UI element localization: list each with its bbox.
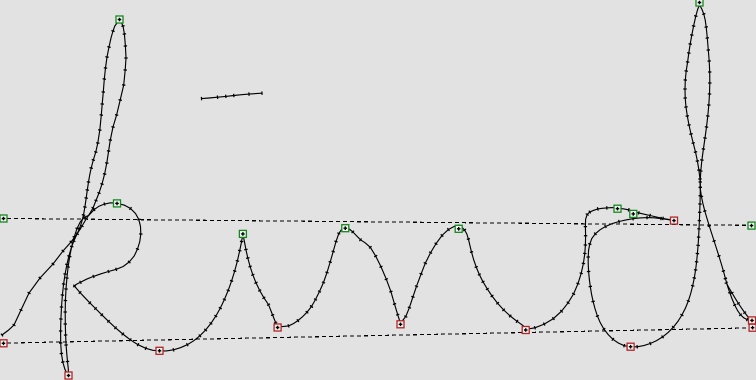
corpus guideline (top dashed): [0, 218, 756, 225]
stroke d tail return: [725, 282, 752, 321]
stroke i exit: [277, 305, 312, 329]
marker green n hump 1 top: [342, 225, 349, 232]
stroke n hump 2 descent: [458, 225, 527, 331]
marker red baseline left end: [0, 340, 7, 347]
stroke n hump 2 rise: [399, 225, 459, 325]
stroke d ascender downstroke and tail: [698, 4, 727, 279]
baseline guideline (bottom dashed): [0, 328, 756, 343]
stroke connection to d top: [525, 206, 674, 331]
stroke rise to i apex: [160, 234, 245, 353]
marker red k descender bottom: [65, 372, 72, 379]
stroke n hump 1 descent: [345, 226, 402, 324]
marker green d approach peak 2: [630, 210, 637, 217]
marker red d bowl top-right: [671, 217, 678, 224]
marker red i cup bottom: [274, 324, 281, 331]
marker green corpus-line right end: [748, 222, 755, 229]
marker green d ascender apex: [696, 0, 703, 6]
stroke rise to n hump 1: [310, 226, 346, 307]
marker green i apex: [239, 230, 246, 237]
stroke k lead-in and ascender upstroke: [1, 19, 128, 336]
marker red u valley before d: [522, 327, 529, 334]
stroke d tail end: [724, 278, 751, 322]
marker green d approach peak 1: [614, 205, 621, 212]
marker red d tail end: [749, 317, 756, 324]
stroke i cup: [241, 234, 279, 328]
stroke k ascender downstroke to descender: [59, 19, 121, 376]
marker red k leg bottom: [156, 347, 163, 354]
i-dot stroke: [201, 92, 262, 101]
marker green k bowl top: [114, 200, 121, 207]
marker green k ascender apex: [116, 16, 123, 23]
marker red baseline right end: [749, 324, 756, 331]
marker red n valley: [397, 321, 404, 328]
stroke d ascender upstroke: [683, 4, 702, 187]
stroke k leg: [73, 285, 160, 353]
stroke k retrace up to bowl: [64, 202, 118, 376]
marker green corpus-line left end: [0, 215, 7, 222]
stroke d bowl: [587, 187, 703, 348]
stroke k bowl: [73, 202, 142, 288]
marker green n hump 2 top: [455, 225, 462, 232]
marker red d bowl bottom: [627, 343, 634, 350]
